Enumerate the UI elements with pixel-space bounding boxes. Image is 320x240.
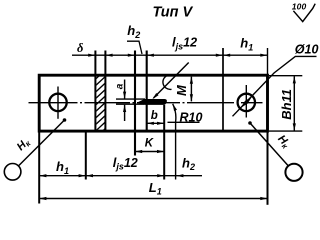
horizontal centerline <box>29 102 263 104</box>
svg-text:b: b <box>151 110 158 122</box>
R10 shelf <box>168 121 200 123</box>
dimension a lower arrow <box>124 105 126 121</box>
svg-text:Тип V: Тип V <box>153 5 194 21</box>
Bh11 extension bottom <box>269 130 302 132</box>
h1 top arrows <box>223 54 230 57</box>
ljs12 bottom arrows <box>86 174 93 177</box>
left hole <box>49 94 66 111</box>
hatching <box>94 68 108 140</box>
upper slot right edge / lower slot left edge <box>146 51 148 132</box>
right callout balloon <box>285 164 302 181</box>
top dimension line <box>72 54 268 56</box>
hatched strip right edge <box>104 51 106 132</box>
dimension b line <box>147 122 165 124</box>
bottom extension right edge <box>267 131 269 205</box>
K dimension line <box>135 151 164 153</box>
plate outline <box>39 75 267 131</box>
vertical dimension at weld plane <box>190 77 192 102</box>
roughness symbol <box>293 4 315 22</box>
left callout balloon <box>4 164 21 181</box>
svg-text:100: 100 <box>292 2 307 12</box>
upper slot left edge <box>134 51 136 156</box>
svg-text:a: a <box>114 83 125 89</box>
h2 bottom arrow <box>176 174 183 177</box>
svg-text:Ø10: Ø10 <box>295 42 319 56</box>
left hole vertical centerline <box>57 87 59 119</box>
svg-text:М: М <box>174 84 189 96</box>
dimension a extension bottom <box>116 103 144 105</box>
dimension a upper arrow <box>124 80 126 99</box>
right callout leader <box>250 123 288 166</box>
adhesive bar <box>137 99 167 105</box>
h2 top leader <box>127 41 142 54</box>
extension line right edge top <box>267 48 269 75</box>
right hole vertical centerline <box>245 85 247 118</box>
left callout leader <box>19 120 65 166</box>
L1 dimension line <box>39 198 267 200</box>
left callout dot <box>63 118 67 122</box>
bottom extension h1 boundary <box>85 131 87 180</box>
hatched strip left edge <box>94 51 96 132</box>
bottom extension left edge <box>38 131 40 204</box>
extension line l/h boundary <box>222 48 224 132</box>
svg-text:K: K <box>145 138 154 150</box>
delta arrows <box>88 54 95 57</box>
ljs12 top arrows <box>216 54 223 57</box>
Bh11 dimension line <box>293 76 295 130</box>
h1 bottom arrows <box>39 174 46 177</box>
lower slot right edge <box>163 105 165 180</box>
dimension a extension top <box>116 98 145 100</box>
right callout dot <box>248 121 252 125</box>
moment arrow diagonal <box>154 63 189 99</box>
Bh11 extension top <box>269 75 302 77</box>
bottom dimension row <box>39 175 202 177</box>
moment arc <box>163 75 172 90</box>
svg-text:R10: R10 <box>180 111 203 125</box>
R10 leader <box>173 104 176 180</box>
svg-text:Bh11: Bh11 <box>279 89 294 120</box>
svg-text:δ: δ <box>77 41 84 55</box>
diameter leader <box>233 56 317 116</box>
right hole <box>238 94 255 111</box>
h2 top arrows <box>128 54 135 57</box>
